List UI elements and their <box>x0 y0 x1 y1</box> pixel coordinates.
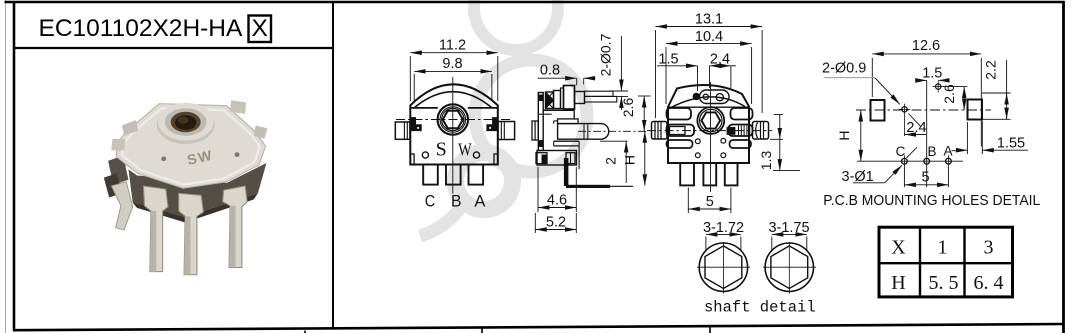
svg-text:2-Ø0.7: 2-Ø0.7 <box>598 33 614 76</box>
photo: leg shading <box>150 211 156 272</box>
pcb: hole C <box>902 158 908 164</box>
back: shoulder line <box>668 106 749 108</box>
pcb: pads centerline <box>856 109 991 111</box>
svg-text:A: A <box>474 192 486 211</box>
svg-text:3: 3 <box>984 237 994 259</box>
back: hole <box>716 94 723 101</box>
front: shaft circles <box>438 104 468 134</box>
back: inner arch <box>672 97 745 107</box>
svg-text:W: W <box>458 140 472 160</box>
FRONT VIEW <box>395 38 514 211</box>
side: lower collar <box>554 140 579 142</box>
svg-text:5: 5 <box>921 170 929 186</box>
svg-text:1.5: 1.5 <box>922 65 942 81</box>
svg-text:2-Ø0.9: 2-Ø0.9 <box>822 61 866 77</box>
frame: bottom border (slightly sloped) <box>13 324 1064 330</box>
svg-text:B: B <box>927 144 936 159</box>
shaft2: crosshair <box>763 266 816 268</box>
svg-text:X: X <box>252 15 268 42</box>
svg-text:C: C <box>425 192 436 211</box>
front: left black bracket <box>411 117 422 131</box>
photo: left rear pin <box>116 144 131 169</box>
side: left tab <box>532 121 538 140</box>
front: W pin circle <box>473 152 479 158</box>
frame: left border <box>13 1 16 331</box>
front: hexagon hole <box>443 111 463 129</box>
back: slot lower-right <box>730 140 752 148</box>
side: body top lines <box>543 109 574 111</box>
table: texts <box>891 237 1003 295</box>
svg-text:5.2: 5.2 <box>546 215 566 231</box>
svg-text:11.2: 11.2 <box>439 38 466 54</box>
front: right side tab <box>498 122 515 140</box>
front: dim 9.8 <box>414 71 492 101</box>
front: horizontal dashed centerline <box>396 119 510 121</box>
side: shaft pins 2-O0.7 <box>585 91 614 96</box>
shaft1: crosshair <box>697 266 750 268</box>
watermark <box>420 0 587 236</box>
svg-text:1.5: 1.5 <box>658 52 678 68</box>
pcb: right pad <box>968 100 983 120</box>
photo: left light pin <box>111 182 132 230</box>
back: hexagon <box>702 112 721 128</box>
svg-text:5. 5: 5. 5 <box>929 272 959 294</box>
X/H TABLE <box>879 227 1013 297</box>
side: left foot <box>536 153 547 164</box>
frame: top border <box>5 1 1065 4</box>
svg-text:1.55: 1.55 <box>997 136 1025 152</box>
back: body outline <box>668 85 749 163</box>
svg-text:5: 5 <box>706 194 714 210</box>
svg-text:S: S <box>436 139 447 161</box>
back: vertical centerline <box>710 82 712 192</box>
photo: dark body lower shadow <box>133 193 258 222</box>
shaft2: circle <box>765 243 813 291</box>
shaft1: circle <box>699 243 747 291</box>
BACK VIEW <box>647 12 800 214</box>
PCB MOUNTING HOLES DETAIL <box>822 38 1040 209</box>
table: outer border <box>879 227 1013 297</box>
photo: top cover <box>116 104 266 189</box>
table: row line <box>879 262 1013 264</box>
front: S pin circle <box>422 152 428 158</box>
back: horizontal dashed centerline <box>647 130 772 132</box>
front: body outline <box>410 84 498 164</box>
svg-text:C: C <box>896 144 906 159</box>
svg-text:H: H <box>891 272 905 294</box>
back: slot lower-left <box>667 140 693 148</box>
SIDE VIEW <box>532 33 651 233</box>
side: shaft cylinder <box>558 124 609 140</box>
svg-text:6. 4: 6. 4 <box>974 272 1004 294</box>
svg-text:2.6: 2.6 <box>620 98 636 118</box>
svg-text:X: X <box>891 237 906 259</box>
frame: right border <box>1062 1 1065 333</box>
shaft1: hexagon <box>705 246 742 289</box>
svg-text:3-1.75: 3-1.75 <box>768 220 809 236</box>
side: body bottom flange <box>537 151 577 166</box>
svg-text:9.8: 9.8 <box>442 56 462 72</box>
svg-text:0.8: 0.8 <box>540 63 560 79</box>
back: obround slot <box>700 90 730 104</box>
front: dim 11.2 <box>410 53 498 101</box>
svg-text:2.2: 2.2 <box>983 60 999 80</box>
photo: dark body front face <box>128 163 266 217</box>
svg-text:A: A <box>943 144 952 159</box>
back: slot mid-right hatched <box>729 125 753 137</box>
back: slot upper-right <box>731 108 753 120</box>
svg-text:12.6: 12.6 <box>912 38 940 54</box>
front: inner arch <box>414 92 492 108</box>
side: stack narrow box <box>561 88 564 109</box>
front: right black bracket <box>486 117 497 131</box>
pcb: left pad <box>871 100 885 121</box>
pcb: hole A <box>946 158 952 164</box>
photo: corner nubs <box>122 120 138 136</box>
shaft2: hexagon <box>771 246 808 289</box>
side: bushing neck <box>575 92 585 104</box>
svg-text:B: B <box>451 192 462 211</box>
back: small hole <box>703 94 708 99</box>
svg-text:2.4: 2.4 <box>906 120 926 136</box>
front: vertical centerline <box>452 77 454 194</box>
title X option box <box>249 16 272 43</box>
SHAFT DETAIL <box>697 220 816 317</box>
side: right foot <box>566 153 575 164</box>
svg-text:2: 2 <box>603 157 619 165</box>
back: center circles <box>697 107 724 134</box>
photo: screw dots <box>161 156 166 161</box>
pcb: hole O0.9 top <box>936 84 941 89</box>
side: bent leg <box>564 158 569 186</box>
front: arch shoulder line <box>410 107 438 109</box>
frame: photo/drawing divider <box>332 2 334 328</box>
svg-text:4.6: 4.6 <box>547 193 567 209</box>
svg-text:1.3: 1.3 <box>758 151 774 171</box>
svg-text:1: 1 <box>938 237 948 259</box>
side: stack box2 <box>554 91 561 109</box>
pcb: hole O0.9 left <box>902 107 907 112</box>
svg-text:13.1: 13.1 <box>695 12 723 28</box>
side: shaft centerline <box>578 130 647 132</box>
photo: center boss <box>157 104 215 144</box>
back: left tab <box>652 122 668 140</box>
back: black square on mid-right <box>727 127 736 135</box>
side: bushing flange <box>564 86 575 110</box>
photo: left dark bent pin upper <box>108 156 128 185</box>
side: left mounting plate <box>538 93 543 151</box>
side: knurl box <box>546 92 554 109</box>
back: right tab <box>753 122 769 140</box>
back: slot upper-left <box>667 108 692 120</box>
svg-text:10.4: 10.4 <box>695 29 723 45</box>
back: legs <box>680 163 694 185</box>
back: rivet circles <box>695 139 700 144</box>
pcb: holes row line <box>857 160 963 162</box>
side: collar above shaft <box>558 119 579 124</box>
svg-text:H: H <box>836 130 852 140</box>
frame: ticks of cut-off row below bottom border <box>304 331 306 333</box>
front: left side tab <box>395 122 410 139</box>
svg-text:3-1.72: 3-1.72 <box>703 220 744 236</box>
photo: shaft hole <box>171 112 201 132</box>
back: black hole <box>693 93 700 100</box>
front: legs <box>423 165 438 185</box>
front: bottom corner lugs <box>410 154 414 165</box>
svg-text:EC101102X2H-HA: EC101102X2H-HA <box>39 15 243 42</box>
svg-text:P.C.B MOUNTING HOLES DETAIL: P.C.B MOUNTING HOLES DETAIL <box>823 193 1040 209</box>
frame: outer thin left line <box>5 0 7 333</box>
svg-text:H: H <box>622 155 638 165</box>
product photo <box>104 100 268 275</box>
table: column lines <box>919 227 921 297</box>
pcb: hole B <box>924 158 930 164</box>
frame: title box bottom <box>14 47 333 49</box>
pcb: B extension line <box>926 80 928 187</box>
back: slot mid-left with window <box>667 125 695 137</box>
photo: front legs <box>143 186 247 275</box>
svg-text:shaft detail: shaft detail <box>704 299 816 317</box>
svg-text:2.4: 2.4 <box>710 52 730 68</box>
